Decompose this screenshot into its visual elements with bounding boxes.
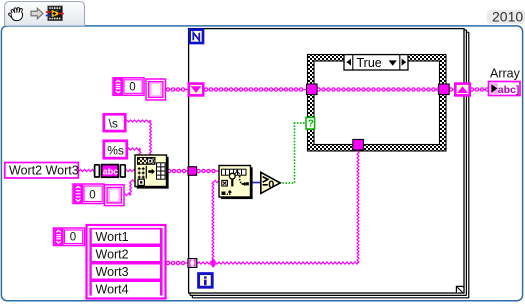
wire array type — [123, 180, 136, 196]
case structure — [308, 55, 447, 152]
svg-text:Wort2 Wort3: Wort2 Wort3 — [9, 164, 79, 178]
string control Wort2 Wort3 — [5, 163, 79, 179]
case bottom tunnel — [353, 139, 364, 150]
svg-text:abc: abc — [103, 166, 119, 176]
wire index blue — [250, 182, 261, 184]
wire string-array shift register to case — [166, 88, 308, 91]
wire delimiter \s — [125, 120, 152, 156]
greater-equal-zero node — [261, 172, 280, 193]
wire string-array to Array indicator — [470, 88, 490, 91]
svg-text:0: 0 — [268, 179, 274, 191]
case right tunnel — [439, 84, 450, 95]
Spreadsheet String To Array node — [135, 155, 169, 189]
svg-text:Wort2: Wort2 — [96, 248, 129, 262]
svg-text:Wort1: Wort1 — [96, 230, 129, 244]
wire string-array through case — [316, 88, 440, 91]
svg-text:True: True — [357, 56, 382, 70]
N terminal — [190, 30, 203, 43]
case selector terminal ? — [306, 117, 315, 129]
for loop corner fold — [456, 286, 464, 293]
array constant Wort1-4 — [54, 225, 166, 299]
tunnel array into loop — [188, 167, 197, 176]
svg-text:\s: \s — [109, 117, 118, 131]
string constant %s — [104, 141, 127, 158]
i terminal — [199, 274, 213, 288]
right shift register — [455, 84, 469, 96]
svg-text:0: 0 — [70, 232, 76, 244]
svg-text:Wort3: Wort3 — [96, 265, 129, 279]
for loop — [189, 29, 469, 298]
wire string-array case to right shift register — [449, 88, 456, 91]
wire string-array Wort constant to loop tunnel — [166, 261, 189, 264]
string terminal abc — [95, 165, 126, 178]
wire junction — [211, 259, 216, 267]
wire boolean dotted — [279, 122, 304, 184]
case left tunnel — [307, 84, 318, 95]
svg-text:Wort4: Wort4 — [96, 283, 129, 297]
Search 1D Array node — [219, 166, 253, 200]
svg-text:?: ? — [308, 119, 314, 130]
year label 2010 — [487, 9, 525, 25]
string constant \s — [104, 114, 125, 131]
toolbar tab — [5, 2, 85, 26]
empty string array constant 1 — [113, 78, 166, 100]
hand tool icon — [8, 8, 22, 21]
case selector label True — [344, 55, 408, 70]
svg-text:abc]: abc] — [498, 84, 520, 96]
Array indicator — [489, 67, 521, 96]
svg-text:Array: Array — [490, 67, 521, 81]
run arrow icon — [31, 8, 43, 19]
empty string array constant 2 — [73, 184, 124, 206]
VI icon — [46, 6, 64, 21]
wire format %s — [127, 148, 141, 156]
wire string control to terminal — [79, 169, 95, 171]
svg-text:2010: 2010 — [492, 9, 523, 25]
svg-text:%s: %s — [107, 143, 124, 157]
left shift register — [189, 84, 203, 96]
wire string element from tunnel — [197, 150, 359, 265]
wire string element to search node — [212, 180, 219, 263]
svg-text:0: 0 — [89, 190, 95, 202]
tunnel auto-index Wort array — [188, 259, 197, 268]
wire string terminal to spreadsheet node — [124, 169, 136, 171]
svg-text:0: 0 — [129, 81, 135, 93]
wire string-array spreadsheet to search — [167, 169, 220, 172]
